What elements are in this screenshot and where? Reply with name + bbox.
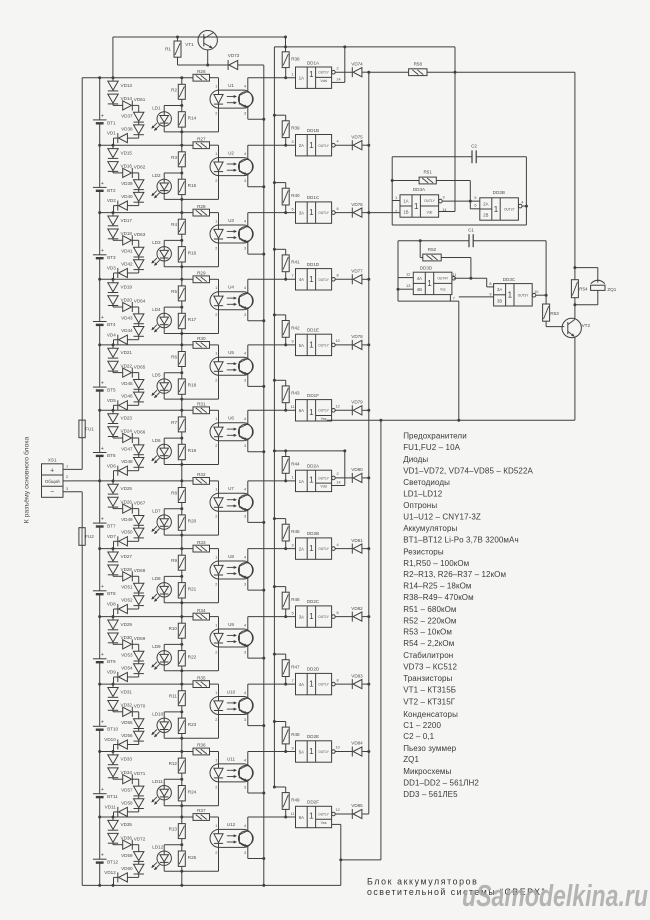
svg-text:VD79: VD79: [351, 400, 363, 405]
svg-text:R26: R26: [197, 69, 206, 74]
diode VD81: [335, 548, 352, 550]
wire emitter node: [178, 64, 229, 66]
wire LED bottom tap: [163, 733, 165, 739]
wire VT2 emitter: [574, 338, 576, 421]
resistor R46: [273, 585, 276, 588]
wire R26row7 to opto: [210, 480, 219, 482]
wire U5 collector: [247, 345, 249, 359]
wire LED top tap: [163, 845, 165, 851]
diode VD63: [112, 239, 114, 241]
battery BT7: [99, 481, 101, 523]
diode VD6: [138, 467, 140, 470]
svg-text:U9: U9: [228, 622, 234, 627]
diode VD2: [138, 202, 140, 205]
wire VD80 to bus: [362, 477, 369, 479]
diode VD82: [335, 616, 352, 618]
wire XS1 pin2 common tap: [63, 480, 70, 482]
svg-text:VD29: VD29: [121, 622, 133, 627]
wire opto LED cathode U9: [218, 647, 220, 671]
svg-text:Оптроны: Оптроны: [403, 501, 437, 510]
resistor R58: [409, 69, 427, 76]
svg-text:VT2: VT2: [582, 323, 591, 328]
wire to bus1: [238, 64, 264, 66]
svg-text:VD17: VD17: [121, 218, 133, 223]
svg-text:2B: 2B: [483, 213, 488, 218]
svg-text:10: 10: [335, 339, 339, 343]
svg-text:R42: R42: [291, 325, 300, 330]
diode VD56: [138, 729, 140, 732]
svg-text:4B: 4B: [417, 287, 422, 292]
svg-text:+: +: [101, 652, 104, 658]
svg-text:6: 6: [337, 611, 339, 615]
wire opto LED cathode U8: [218, 579, 220, 603]
svg-text:3: 3: [244, 379, 246, 383]
svg-text:LD9: LD9: [152, 644, 161, 649]
diode VD75: [335, 144, 352, 146]
svg-text:1: 1: [414, 202, 419, 211]
svg-text:R31: R31: [197, 402, 206, 407]
svg-text:R23: R23: [188, 722, 197, 727]
svg-text:VD50: VD50: [121, 530, 133, 535]
wire U9 emitter: [247, 645, 249, 658]
resistor R14: [181, 99, 183, 111]
wire R26row2 to opto: [210, 144, 219, 146]
svg-text:R37: R37: [197, 808, 206, 813]
svg-text:4: 4: [244, 352, 246, 356]
diode VD35: [112, 817, 114, 820]
svg-text:Vss: Vss: [321, 417, 327, 421]
svg-text:R48: R48: [291, 732, 300, 737]
wire LED top tap: [163, 644, 165, 650]
svg-text:4: 4: [244, 417, 246, 421]
resistor R19: [181, 432, 183, 444]
svg-text:9: 9: [292, 340, 294, 344]
svg-text:VD12: VD12: [104, 870, 116, 875]
node block 9 top line: [100, 616, 193, 618]
svg-text:C2: C2: [471, 144, 477, 149]
wire row 9 input line: [248, 616, 296, 618]
svg-text:С1 – 2200: С1 – 2200: [403, 721, 441, 730]
svg-text:VD7: VD7: [107, 534, 116, 539]
svg-text:2A: 2A: [483, 201, 488, 206]
diode VD39: [132, 172, 138, 174]
node block 7 top line: [100, 480, 193, 482]
svg-text:FU1: FU1: [85, 427, 94, 432]
svg-text:3: 3: [244, 582, 246, 586]
svg-text:OUT1Y: OUT1Y: [318, 547, 330, 551]
svg-text:3: 3: [292, 543, 294, 547]
svg-text:8: 8: [337, 678, 339, 682]
svg-text:Vss: Vss: [321, 821, 327, 825]
svg-text:LD1–LD12: LD1–LD12: [403, 489, 443, 498]
wire DD3D Vss stub: [449, 295, 451, 302]
diode VD69: [112, 643, 114, 645]
resistor R34: [193, 613, 210, 620]
resistor R29: [193, 276, 210, 283]
svg-text:2: 2: [215, 379, 217, 383]
gate DD2C: [296, 606, 332, 627]
resistor R26: [193, 74, 210, 81]
resistor R15: [181, 167, 183, 179]
wire bottom rail: [82, 884, 341, 886]
svg-text:2: 2: [215, 515, 217, 519]
svg-text:1: 1: [309, 70, 314, 79]
svg-text:LD1: LD1: [152, 105, 161, 110]
svg-text:R16: R16: [188, 250, 197, 255]
resistor R47: [273, 653, 276, 656]
svg-text:1: 1: [292, 476, 294, 480]
wire R26row9 to opto: [210, 616, 219, 618]
svg-text:VD2: VD2: [107, 198, 116, 203]
diode VD17: [112, 213, 114, 216]
svg-text:VD83: VD83: [351, 673, 363, 678]
svg-text:R54 – 2,2кОм: R54 – 2,2кОм: [403, 639, 454, 648]
svg-text:1: 1: [494, 205, 499, 214]
svg-text:4: 4: [244, 555, 246, 559]
diode VD76: [335, 212, 352, 214]
wire U8 collector: [247, 549, 249, 563]
resistor R27: [193, 142, 210, 149]
svg-text:5A: 5A: [299, 343, 304, 348]
diode VD66: [112, 437, 114, 439]
svg-text:+: +: [101, 517, 104, 523]
svg-text:1: 1: [215, 488, 217, 492]
wire LED bottom tap: [163, 194, 165, 200]
svg-text:uSamodelkina.ru: uSamodelkina.ru: [462, 878, 648, 913]
svg-text:3A: 3A: [299, 211, 304, 216]
resistor R5: [181, 279, 183, 286]
svg-text:VD63: VD63: [134, 232, 146, 237]
svg-text:DD2E: DD2E: [307, 734, 319, 739]
wire opto LED cathode U10: [218, 715, 220, 739]
svg-text:DD3 – 561ЛЕ5: DD3 – 561ЛЕ5: [403, 790, 458, 799]
svg-text:VD38: VD38: [121, 127, 133, 132]
svg-text:R1,R50 – 100кОм: R1,R50 – 100кОм: [403, 559, 469, 568]
svg-text:VD52: VD52: [121, 597, 133, 602]
svg-text:VD62: VD62: [134, 165, 146, 170]
LED LD7: [157, 515, 171, 529]
svg-text:1A: 1A: [403, 198, 408, 203]
wire U12 collector: [247, 817, 249, 831]
svg-text:2: 2: [215, 650, 217, 654]
svg-text:R13: R13: [169, 827, 178, 832]
svg-text:3: 3: [66, 487, 68, 491]
svg-text:2: 2: [215, 718, 217, 722]
diode VD23: [112, 410, 114, 413]
LED LD4: [157, 313, 171, 327]
wire LED top tap: [163, 712, 165, 718]
diode VD12: [138, 874, 140, 877]
battery BT12: [99, 817, 101, 859]
diode VD3: [138, 270, 140, 273]
svg-text:11: 11: [452, 273, 456, 277]
diode VD38: [138, 122, 140, 125]
wire U3 collector: [247, 213, 249, 227]
resistor R40: [273, 181, 276, 184]
svg-text:VD78: VD78: [351, 334, 363, 339]
wire diode OR bus: [368, 72, 370, 814]
wire alarm line: [369, 71, 409, 73]
svg-text:12: 12: [406, 273, 410, 277]
diode VD85: [335, 813, 352, 815]
svg-text:BT10: BT10: [107, 727, 118, 732]
optocoupler U4: [210, 292, 253, 310]
gate DD2E: [296, 741, 332, 762]
diode VD5: [138, 402, 140, 405]
wire VD84 to bus: [362, 751, 369, 753]
resistor R6: [181, 345, 183, 352]
diode VD30: [108, 633, 118, 642]
diode VD59: [132, 844, 138, 846]
svg-text:DD1–DD2 – 561ЛН2: DD1–DD2 – 561ЛН2: [403, 779, 479, 788]
wire VD83 to bus: [362, 683, 369, 685]
resistor R35: [193, 681, 210, 688]
svg-text:U1–U12 – CNY17-3Z: U1–U12 – CNY17-3Z: [403, 512, 481, 521]
diode VD20: [108, 296, 118, 305]
svg-text:DD1F: DD1F: [307, 393, 319, 398]
LED LD8: [157, 583, 171, 597]
svg-text:2: 2: [215, 112, 217, 116]
wire FU1 to stack top: [81, 78, 83, 420]
svg-text:R7: R7: [171, 420, 177, 425]
wire opto LED cathode U7: [218, 511, 220, 535]
diode VD60: [138, 861, 140, 864]
svg-text:+: +: [101, 584, 104, 590]
svg-text:12: 12: [335, 405, 339, 409]
wire LED top tap: [163, 173, 165, 179]
diode VD65: [112, 371, 114, 373]
svg-text:VD4: VD4: [107, 332, 116, 337]
svg-text:1: 1: [215, 152, 217, 156]
wire U1 collector: [247, 78, 249, 92]
svg-text:4: 4: [244, 286, 246, 290]
svg-text:1: 1: [309, 408, 314, 417]
svg-text:OUT1Y: OUT1Y: [318, 812, 330, 816]
svg-text:2: 2: [215, 582, 217, 586]
wire bus to DD3A input: [369, 212, 400, 214]
wire R26row6 to opto: [210, 409, 219, 411]
battery BT9: [99, 617, 101, 659]
svg-text:Светодиоды: Светодиоды: [403, 478, 450, 487]
wire opto LED cathode U12: [218, 847, 220, 871]
svg-text:DD2A: DD2A: [307, 464, 320, 469]
svg-text:DD1B: DD1B: [307, 128, 319, 133]
svg-text:Vss: Vss: [440, 288, 446, 292]
wire U2 collector: [247, 145, 249, 159]
svg-text:R28: R28: [197, 204, 206, 209]
svg-text:14: 14: [336, 481, 340, 485]
diode VD28: [108, 565, 118, 574]
svg-text:OUT4Y: OUT4Y: [437, 277, 449, 281]
resistor R53: [545, 295, 547, 304]
optocoupler U1: [210, 90, 253, 108]
wire Vss drop: [380, 420, 382, 860]
svg-text:Аккумуляторы: Аккумуляторы: [403, 524, 457, 533]
svg-text:DD3A: DD3A: [413, 187, 426, 192]
wire DD1 Vss line: [327, 419, 575, 421]
svg-text:6A: 6A: [299, 408, 304, 413]
svg-text:VD11: VD11: [105, 805, 117, 810]
wire bottom ground run: [341, 859, 381, 861]
svg-text:R53: R53: [550, 311, 559, 316]
wire R26row5 to opto: [210, 344, 219, 346]
diode VD62: [112, 171, 114, 173]
wire LED bottom tap: [163, 529, 165, 535]
gate DD1C: [296, 202, 332, 223]
diode VD31: [112, 684, 114, 687]
svg-text:VD85: VD85: [351, 803, 363, 808]
svg-text:R6: R6: [171, 355, 177, 360]
svg-text:VD1–VD72, VD74–VD85 – КD522А: VD1–VD72, VD74–VD85 – КD522А: [403, 466, 533, 475]
svg-text:2: 2: [215, 246, 217, 250]
wire LED top tap: [163, 240, 165, 246]
resistor R23: [181, 706, 183, 718]
svg-text:LD2: LD2: [152, 173, 161, 178]
capacitor C1: [398, 240, 469, 242]
wire R26row1 to opto: [210, 77, 219, 79]
svg-text:1A: 1A: [299, 76, 304, 81]
svg-text:ZQ1: ZQ1: [607, 287, 616, 292]
resistor R16: [181, 234, 183, 246]
wire VD85 to bus: [362, 813, 369, 815]
node block 6 top line: [100, 409, 193, 411]
wire right drop: [574, 72, 576, 267]
svg-text:9: 9: [292, 746, 294, 750]
resistor R1: [177, 37, 179, 41]
svg-text:R58: R58: [414, 62, 423, 67]
svg-text:VD40: VD40: [121, 194, 133, 199]
svg-text:2: 2: [395, 210, 397, 214]
svg-text:+: +: [50, 468, 54, 475]
wire row 4 input line: [248, 278, 296, 280]
wire VD79 to bus: [362, 409, 369, 411]
resistor R17: [181, 301, 183, 313]
wire LED bottom tap: [163, 665, 165, 671]
svg-text:VD82: VD82: [351, 606, 363, 611]
resistor R30: [193, 342, 210, 349]
diode VD13: [112, 78, 114, 81]
wire rail drop to R38: [285, 37, 287, 52]
svg-text:8: 8: [489, 282, 491, 286]
svg-text:2: 2: [215, 785, 217, 789]
svg-text:R2–R13, R26–R37 – 12кОм: R2–R13, R26–R37 – 12кОм: [403, 570, 506, 579]
svg-text:3: 3: [244, 246, 246, 250]
diode VD41: [132, 239, 138, 241]
svg-text:R51: R51: [423, 170, 432, 175]
svg-text:VD71: VD71: [134, 771, 146, 776]
svg-text:1: 1: [66, 464, 68, 468]
svg-text:3: 3: [443, 195, 445, 199]
svg-text:4: 4: [244, 488, 246, 492]
svg-text:VD69: VD69: [134, 636, 146, 641]
svg-text:Общий: Общий: [45, 478, 60, 484]
battery BT2: [99, 145, 101, 187]
wire row 6 input line: [248, 409, 296, 411]
resistor R13: [181, 817, 183, 824]
zener diode VD73: [227, 60, 229, 70]
wire LED bottom tap: [163, 126, 165, 132]
wire U3 emitter: [247, 241, 249, 254]
svg-text:BT4: BT4: [107, 322, 116, 327]
diode VD53: [132, 643, 138, 645]
wire DD3A input: [392, 200, 400, 202]
svg-text:R43: R43: [291, 391, 300, 396]
gate DD2F: [296, 806, 332, 827]
wire R26row10 to opto: [210, 683, 219, 685]
gate DD1D: [296, 269, 332, 290]
diode VD8: [138, 606, 140, 609]
diode VD68: [112, 575, 114, 577]
svg-text:4: 4: [244, 824, 246, 828]
svg-text:1: 1: [427, 279, 432, 288]
svg-text:VD47: VD47: [121, 446, 133, 451]
svg-text:Транзисторы: Транзисторы: [403, 674, 452, 683]
svg-text:3: 3: [244, 313, 246, 317]
svg-text:BT5: BT5: [107, 388, 116, 393]
svg-text:Микросхемы: Микросхемы: [403, 767, 451, 776]
wire U4 emitter: [247, 308, 249, 321]
wire Vdd branch line: [274, 46, 455, 48]
resistor R33: [193, 545, 210, 552]
gate DD3B: [480, 198, 519, 220]
svg-text:R18: R18: [188, 383, 197, 388]
svg-text:3: 3: [244, 650, 246, 654]
wire VD85 bus corner: [368, 813, 370, 815]
svg-text:DD1A: DD1A: [307, 60, 320, 65]
svg-text:R19: R19: [188, 448, 197, 453]
svg-text:1: 1: [309, 141, 314, 150]
resistor R39: [273, 114, 276, 117]
svg-text:VD49: VD49: [121, 517, 133, 522]
optocoupler U10: [210, 697, 253, 715]
svg-text:R14: R14: [188, 116, 197, 121]
diode VD72: [112, 843, 114, 845]
wire U9 collector: [247, 617, 249, 631]
wire VD77 to bus: [362, 278, 369, 280]
svg-text:R17: R17: [188, 317, 197, 322]
wire LED top tap: [163, 307, 165, 313]
svg-text:R41: R41: [291, 260, 300, 265]
svg-text:4: 4: [244, 623, 246, 627]
svg-text:4: 4: [244, 152, 246, 156]
svg-text:4: 4: [337, 543, 339, 547]
svg-text:VD73: VD73: [228, 53, 240, 58]
svg-text:1: 1: [508, 291, 513, 300]
svg-text:OUT1Y: OUT1Y: [424, 199, 436, 203]
svg-text:4A: 4A: [417, 276, 422, 281]
resistor R42: [273, 313, 276, 316]
svg-text:U8: U8: [228, 554, 234, 559]
node block 1 top line: [100, 77, 193, 79]
svg-text:R4: R4: [171, 222, 177, 227]
svg-text:9: 9: [489, 292, 491, 296]
diode VD70: [112, 710, 114, 712]
svg-text:VD33: VD33: [121, 757, 133, 762]
svg-text:DD2C: DD2C: [307, 599, 320, 604]
svg-text:R22: R22: [188, 654, 197, 659]
resistor R54: [573, 266, 576, 269]
svg-text:U12: U12: [227, 822, 236, 827]
svg-text:DD3B: DD3B: [493, 190, 505, 195]
wire Vss DD1 stub: [326, 419, 328, 422]
svg-text:R33: R33: [197, 540, 206, 545]
wire opto LED cathode U11: [218, 782, 220, 806]
svg-text:R36: R36: [197, 743, 206, 748]
gate DD3D: [413, 272, 452, 294]
optocoupler U7: [210, 493, 253, 511]
wire C2 left feedback: [391, 157, 393, 201]
optocoupler U9: [210, 629, 253, 647]
